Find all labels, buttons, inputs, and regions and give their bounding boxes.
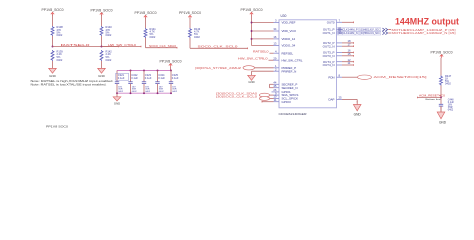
wire top bus xyxy=(117,70,171,72)
capacitor C323 xyxy=(142,70,152,94)
wire xyxy=(189,18,191,28)
svg-text:11: 11 xyxy=(274,98,277,102)
wire power bus xyxy=(251,15,253,45)
svg-text:OUT4_N: OUT4_N xyxy=(323,63,335,67)
pin SECREF_P SECREF_N shorted xyxy=(270,81,298,90)
svg-text:HW_SW_CTRL: HW_SW_CTRL xyxy=(282,58,303,62)
svg-text:U30: U30 xyxy=(281,14,287,18)
pin HW_SW_CTRL 29 xyxy=(238,56,303,62)
wire xyxy=(101,15,103,26)
svg-text:0.1uF: 0.1uF xyxy=(145,76,152,80)
svg-text:SOC0_CLK_SDA0: SOC0_CLK_SDA0 xyxy=(149,44,176,48)
resistor R142 xyxy=(100,49,112,61)
pin VDD_REF 3 xyxy=(251,19,296,25)
svg-text:144MHZ output: 144MHZ output xyxy=(395,17,459,27)
resistor R143 xyxy=(189,27,201,39)
svg-text:16: 16 xyxy=(273,35,277,39)
svg-text:DAP: DAP xyxy=(329,98,335,102)
note bottom line xyxy=(426,98,442,101)
power flag PP1V8_SOC0 for U30 xyxy=(241,8,263,16)
capacitor C448 xyxy=(439,98,455,111)
pin SDA_SPICS 9 off-page SOC0_CLK_SDA0 xyxy=(216,91,298,97)
node ACM_RESET#C0 xyxy=(418,94,446,99)
footer text xyxy=(46,125,69,129)
pin SCL_SPICK 10 off-page SOC0_CLK_SCL0 xyxy=(216,95,298,101)
svg-text:PP1V8_SOC0: PP1V8_SOC0 xyxy=(42,8,64,12)
svg-text:Bottom line: Bottom line xyxy=(426,98,442,101)
svg-text:0.1uF: 0.1uF xyxy=(131,76,138,80)
svg-text:0.1uF: 0.1uF xyxy=(118,76,125,80)
ground cap bank xyxy=(113,93,121,105)
svg-text:0402: 0402 xyxy=(172,91,178,93)
pin OUT3_N 15 xyxy=(323,52,354,58)
pin OUT1_P 20 off-page MOTHERCLAMP_144MHZ_P xyxy=(323,26,456,32)
svg-text:[30]SOC0_CLK_SDA0: [30]SOC0_CLK_SDA0 xyxy=(216,91,258,95)
resistor R447 xyxy=(440,74,452,86)
svg-text:GND: GND xyxy=(98,74,106,78)
wire xyxy=(170,67,172,71)
svg-text:PRIREF_N: PRIREF_N xyxy=(282,69,297,73)
pin PRIREF_P 1 off-page FPGA_STYREF_24MHZ xyxy=(195,64,296,70)
pin OUT0 7 xyxy=(327,19,354,25)
svg-text:PDN: PDN xyxy=(328,75,334,79)
wire net SOC0_CLK_SCL0 xyxy=(190,44,248,49)
wire xyxy=(440,106,442,112)
svg-text:PP1V8_SOC0: PP1V8_SOC0 xyxy=(241,8,263,12)
svg-text:VDD_VCO: VDD_VCO xyxy=(282,29,297,33)
pin OUT4_P 12 xyxy=(323,58,354,64)
svg-text:MOTHERCLAMP_144MHZ_N [15]: MOTHERCLAMP_144MHZ_N [15] xyxy=(392,31,456,35)
svg-text:MOTHERCLAMP_144MHZ_P [15]: MOTHERCLAMP_144MHZ_P [15] xyxy=(392,28,456,32)
pin VDDO_34 13 xyxy=(252,42,296,48)
wire xyxy=(189,38,191,48)
svg-text:PP1V8_SOC0: PP1V8_SOC0 xyxy=(179,11,201,15)
svg-text:ACM_RESET#C0[15]: ACM_RESET#C0[15] xyxy=(374,75,428,79)
pin OUT3_P 16 xyxy=(323,49,354,55)
capacitor C321 xyxy=(115,71,129,94)
power flag HW_SW_CTRL0 pull-up PP1V8_SOC0 xyxy=(91,8,113,16)
title 144MHZ output xyxy=(395,17,459,27)
svg-text:HW_SW_CTRL0: HW_SW_CTRL0 xyxy=(238,57,268,61)
pin PDN 8 off-page ACM_RESET#C0 xyxy=(328,74,427,80)
svg-text:PP1V8_SOC0: PP1V8_SOC0 xyxy=(431,50,453,54)
capacitor C322 xyxy=(128,70,138,94)
svg-text:13: 13 xyxy=(273,42,277,46)
pin REFSEL 4 xyxy=(253,49,294,55)
wire xyxy=(145,18,147,28)
pin PRIREF_N 2 to ground xyxy=(252,67,297,73)
op-ic U30 body xyxy=(279,14,337,116)
svg-text:0402: 0402 xyxy=(445,82,451,86)
power flag PP1V8_SOC0 cap bank xyxy=(160,59,182,67)
pin OUT1_N 19 off-page MOTHERCLAMP_144MHZ_N xyxy=(323,29,456,35)
resistor R140 xyxy=(100,25,112,37)
svg-text:GND: GND xyxy=(248,80,254,84)
svg-text:0402: 0402 xyxy=(106,58,112,62)
svg-text:0.1uF: 0.1uF xyxy=(172,76,179,80)
wire xyxy=(145,38,147,48)
ground DAP xyxy=(353,101,361,117)
svg-text:GND: GND xyxy=(114,102,120,106)
resistor R139 xyxy=(51,49,63,61)
power flag SOC0_CLK_SCL0 pull-up PP1V8_SOC0 xyxy=(179,11,201,19)
pin OUT4_N 11 xyxy=(323,61,354,67)
resistor R138 xyxy=(51,25,63,37)
svg-text:OUT1_N: OUT1_N xyxy=(323,31,335,35)
svg-text:OUT0: OUT0 xyxy=(327,20,335,24)
wire bottom bus xyxy=(116,92,172,94)
svg-text:GND: GND xyxy=(439,120,447,124)
pin VDDO_12 16 xyxy=(251,35,296,41)
svg-text:29: 29 xyxy=(273,56,277,60)
wire xyxy=(101,36,103,47)
power flag PP1V8_SOC0 right xyxy=(431,50,453,58)
svg-text:PP1V8 SOC0: PP1V8 SOC0 xyxy=(46,125,69,129)
pin DAP 25 to ground xyxy=(329,96,358,103)
svg-text:Note: RATSEL is low,XTAL/SE in: Note: RATSEL is low,XTAL/SE input enable… xyxy=(31,83,107,87)
svg-text:0402: 0402 xyxy=(194,35,200,39)
wire xyxy=(52,36,54,47)
note text xyxy=(31,79,114,87)
svg-text:0402: 0402 xyxy=(150,35,156,39)
svg-text:PP1V8_SOC0: PP1V8_SOC0 xyxy=(135,11,157,15)
svg-text:[30]CLK144M_N: [30]CLK144M_N xyxy=(338,32,358,35)
ground PRIREF_N xyxy=(248,71,256,84)
svg-text:0402: 0402 xyxy=(57,58,63,62)
power flag RATSEL0 pull-up PP1V8_SOC0 xyxy=(42,8,64,16)
svg-text:[30]HBCLK1N_SOC: [30]HBCLK1N_SOC xyxy=(360,32,380,35)
pin GPIO3 11 xyxy=(262,98,291,104)
node HW_SW_CTRL0 xyxy=(101,43,137,48)
svg-text:OUT2_N: OUT2_N xyxy=(323,44,335,48)
svg-text:[30]FPGA_STYREF_24MHZ: [30]FPGA_STYREF_24MHZ xyxy=(195,66,241,70)
svg-text:0.1uF: 0.1uF xyxy=(158,76,165,80)
svg-text:OUT3_N: OUT3_N xyxy=(323,54,335,58)
svg-text:VDDO_34: VDDO_34 xyxy=(282,44,296,48)
wire xyxy=(52,15,54,26)
svg-text:CDCE6214RGER: CDCE6214RGER xyxy=(279,112,308,116)
ground xyxy=(49,61,57,78)
svg-text:[30]SOC0_CLK_SCL0: [30]SOC0_CLK_SCL0 xyxy=(216,95,258,99)
svg-text:GND: GND xyxy=(49,74,57,78)
svg-text:VDD_REF: VDD_REF xyxy=(282,21,296,25)
svg-text:25: 25 xyxy=(339,96,343,100)
pin GPIO1 26 xyxy=(272,88,292,94)
capacitor C324 xyxy=(155,70,165,94)
wire xyxy=(440,97,442,104)
ground xyxy=(98,61,106,78)
svg-text:VDDO_12: VDDO_12 xyxy=(282,37,296,41)
svg-text:0402: 0402 xyxy=(57,33,63,37)
svg-text:GND: GND xyxy=(354,113,362,117)
svg-text:GPIO3: GPIO3 xyxy=(282,100,292,104)
wire net SOC0_CLK_SDA0 xyxy=(146,44,178,49)
wire xyxy=(53,46,119,48)
resistor R141 xyxy=(144,27,156,39)
svg-text:REFSEL: REFSEL xyxy=(282,51,294,55)
svg-text:34: 34 xyxy=(273,27,277,31)
pin OUT2_P 18 xyxy=(323,39,354,45)
ground right chain xyxy=(437,106,447,124)
pin OUT2_N 17 xyxy=(323,42,354,48)
node RATSEL0 xyxy=(52,43,91,48)
svg-text:SOC0_CLK_SCL0: SOC0_CLK_SCL0 xyxy=(198,44,239,48)
svg-text:PP1V8_SOC0: PP1V8_SOC0 xyxy=(160,59,182,63)
svg-text:PP1V8_SOC0: PP1V8_SOC0 xyxy=(91,8,113,12)
svg-text:RATSEL0: RATSEL0 xyxy=(253,50,269,54)
wire xyxy=(102,46,142,48)
pin VDD_VCO 34 xyxy=(251,27,297,33)
wire xyxy=(440,86,442,98)
svg-text:0402: 0402 xyxy=(448,108,454,111)
capacitor C325 xyxy=(169,70,179,94)
wire xyxy=(440,58,442,76)
svg-text:0402: 0402 xyxy=(106,33,112,37)
power flag SOC0_CLK_SDA0 pull-up PP1V8_SOC0 xyxy=(135,11,157,19)
